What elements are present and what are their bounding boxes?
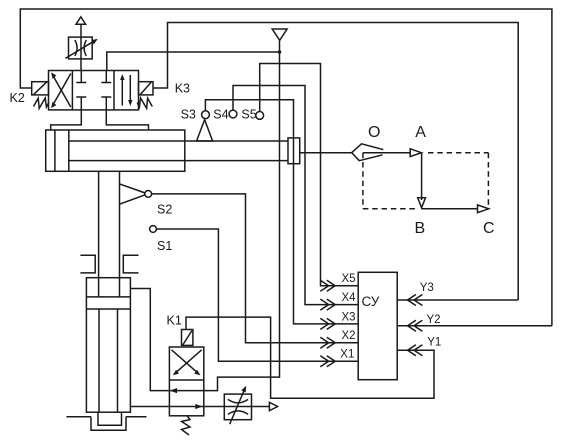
wire O to A with arrow — [363, 152, 410, 154]
exhaust triangle — [269, 402, 277, 410]
dashed path rectangle — [363, 153, 489, 209]
wire vent line valve to throttle — [80, 24, 82, 70]
svg-text:K3: K3 — [175, 81, 190, 95]
switch S1 — [150, 226, 157, 233]
bracket left — [80, 255, 95, 273]
sensor S5 — [256, 112, 264, 120]
svg-text:C: C — [483, 220, 495, 237]
wire X4 chevron — [320, 299, 328, 310]
cylinder C2 body — [86, 278, 130, 413]
wire Y3 row — [397, 299, 518, 301]
wire S2 to X2 — [152, 194, 359, 343]
wire S4 to X4 — [233, 86, 358, 305]
svg-text:X5: X5 — [342, 273, 356, 285]
wire X2 chevron — [320, 337, 328, 348]
floor cup — [91, 417, 126, 431]
svg-text:S3: S3 — [181, 107, 196, 121]
cylinder C2 rod tip — [98, 412, 122, 425]
wire Y1 chevron — [408, 345, 416, 356]
svg-text:X1: X1 — [340, 349, 354, 361]
wire X5 chevron — [320, 280, 328, 291]
throttle valve DR1 — [69, 37, 93, 59]
valve K1 crossed arrows — [172, 350, 199, 374]
cylinder C2 rod — [98, 309, 100, 412]
valve K1 body — [169, 347, 203, 416]
floor left — [66, 416, 91, 418]
svg-text:X3: X3 — [342, 311, 356, 323]
svg-text:S1: S1 — [157, 239, 172, 253]
cylinder C1 rod — [69, 140, 288, 142]
wire inner loop K3 to Y3 — [153, 23, 518, 301]
solenoid K2 — [32, 82, 49, 95]
svg-text:A: A — [415, 124, 426, 141]
svg-text:X4: X4 — [342, 292, 357, 304]
vent triangle — [76, 17, 86, 24]
pipe C2 lower port to K1 — [130, 406, 169, 408]
valve K1 through line right — [169, 406, 203, 408]
floor right — [126, 416, 147, 418]
valve V1 left position crossed arrows — [52, 75, 71, 108]
wire S3 to X3 — [205, 100, 358, 324]
cylinder C1 body — [46, 130, 185, 171]
wire outer loop K2 to Y2 — [20, 9, 552, 326]
air intake funnel — [272, 29, 287, 40]
svg-text:K1: K1 — [167, 313, 182, 327]
wire supply drop to K1 — [204, 52, 280, 391]
node supply junction — [278, 50, 282, 54]
solenoid of K1 — [182, 330, 193, 346]
spring of K1 — [182, 416, 191, 435]
sensor S4 — [229, 110, 237, 118]
svg-text:Y3: Y3 — [420, 282, 434, 294]
wire X3 chevron — [320, 318, 328, 329]
cam triangle on rod — [197, 120, 213, 141]
svg-text:S5: S5 — [241, 107, 256, 121]
svg-text:O: O — [368, 124, 380, 141]
valve V1 right position flow arrows — [121, 77, 123, 106]
sensor S3 — [202, 111, 210, 119]
cylinder C2 piston — [86, 296, 130, 298]
svg-text:S2: S2 — [157, 203, 172, 217]
wire X1 chevron — [320, 356, 328, 367]
spring of K3 — [137, 98, 152, 108]
valve V1 body (4/3 directional valve) — [49, 71, 139, 110]
pipe valve port B to cylinder C1 right — [106, 110, 148, 130]
wire Y2 row — [397, 325, 552, 327]
valve V1 centre blocked ports — [80, 71, 82, 83]
control unit CU box — [358, 272, 397, 379]
pipe C2 upper port to K1 — [130, 289, 169, 391]
solenoid K3 — [139, 82, 154, 95]
spring of K2 — [34, 98, 49, 108]
column rod to lower cylinder — [98, 171, 100, 297]
wire S1 to X1 — [156, 229, 358, 361]
svg-text:Y2: Y2 — [427, 314, 441, 326]
pipe valve port A to cylinder C1 left — [51, 110, 82, 130]
arrow A to B — [421, 153, 423, 200]
pipe K1 to throttle DR2 — [204, 406, 270, 408]
wire S5 to X5 — [260, 64, 359, 286]
svg-text:Y1: Y1 — [427, 337, 441, 349]
svg-text:СУ: СУ — [362, 294, 380, 309]
bracket right — [123, 255, 138, 273]
cylinder C1 rod end cap — [288, 138, 300, 164]
tool pointer O — [300, 152, 352, 154]
switch S2 lever — [120, 184, 146, 193]
svg-text:S4: S4 — [213, 107, 228, 121]
wire Y1 from K1 solenoid to CU — [186, 317, 434, 398]
svg-text:B: B — [415, 220, 426, 237]
wire supply line valve to junction — [107, 52, 280, 71]
arrow B to C — [422, 208, 478, 210]
svg-text:X2: X2 — [342, 330, 356, 342]
throttle valve DR2 — [224, 394, 251, 420]
valve K1 through line left — [169, 390, 203, 392]
cylinder C1 piston — [68, 130, 70, 171]
svg-text:K2: K2 — [10, 91, 25, 105]
